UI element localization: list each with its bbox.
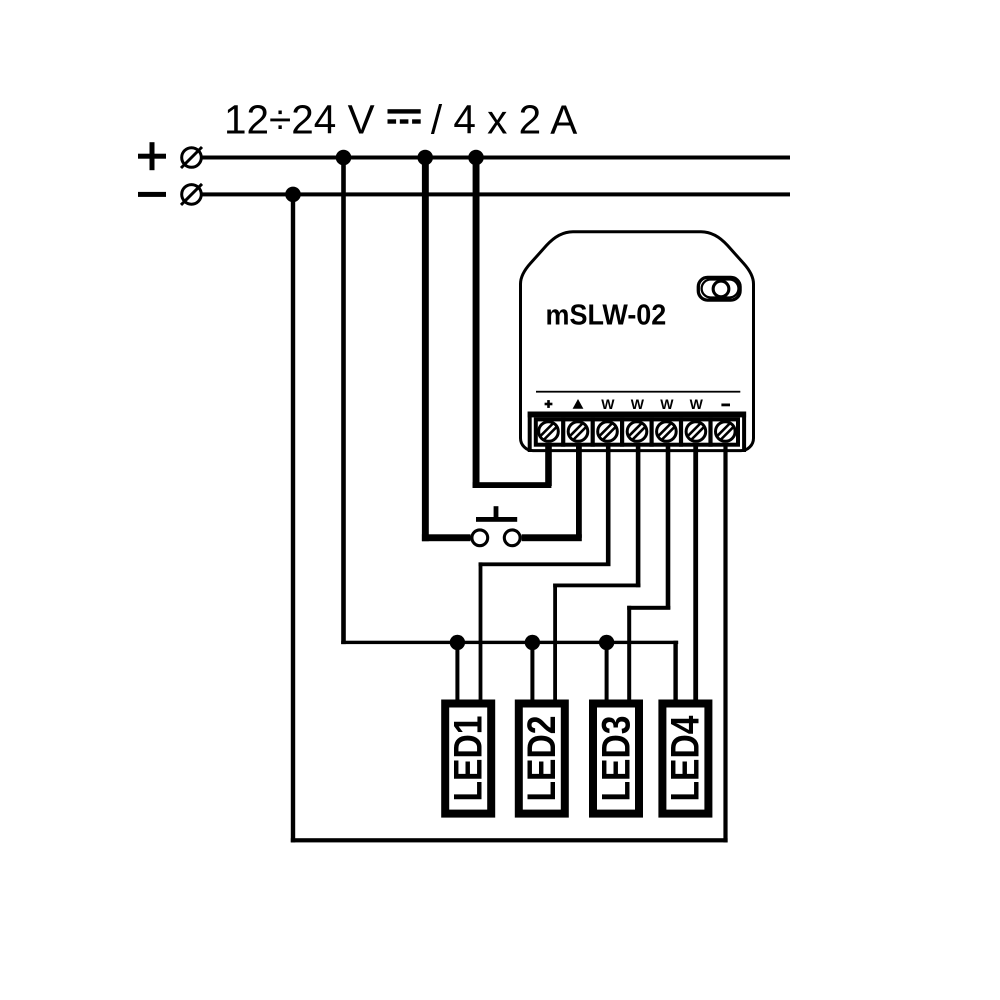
node: junction dot bus to LED1	[450, 635, 465, 650]
wire: bus down to LED2 left pin	[530, 642, 534, 700]
wire: bottom return horizontal	[291, 838, 728, 842]
terminal block left wall	[528, 412, 532, 453]
label: supply rating 12÷24 V dc / 4 x 2 A	[224, 97, 577, 143]
svg-text:W: W	[660, 396, 674, 412]
node: junction dot plus rail to LED bus	[336, 150, 352, 166]
screw terminal minus	[716, 422, 736, 442]
module mSLW-02 body outline	[521, 232, 754, 451]
screw terminal W1	[598, 422, 618, 442]
wire: W1 step horizontal	[479, 562, 611, 566]
screw terminal W2	[627, 422, 647, 442]
screw terminal W3	[657, 422, 677, 442]
svg-text:LED4: LED4	[664, 715, 708, 802]
label: terminal minus	[721, 404, 730, 407]
terminal screws with slash	[539, 422, 735, 442]
wire: up to arrow terminal	[576, 446, 582, 538]
wire: W3 step horizontal	[627, 606, 670, 610]
svg-text:mSLW-02: mSLW-02	[546, 300, 667, 332]
wire: minus rail down left side	[291, 194, 295, 842]
svg-text:W: W	[631, 396, 645, 412]
terminal screw symbol plus	[181, 147, 202, 168]
svg-text:W: W	[690, 396, 704, 412]
wire: plus supply rail	[201, 156, 790, 160]
wire: up into module plus terminal	[545, 446, 552, 486]
wire: W2 step horizontal	[553, 584, 640, 588]
node: junction dot plus rail to switch	[417, 150, 433, 166]
wire: W3 terminal down	[666, 446, 671, 609]
load LED4 box	[662, 704, 708, 814]
load LED3 box	[593, 704, 639, 814]
node: junction dot bus to LED2	[525, 635, 540, 650]
terminal block right wall	[742, 412, 746, 453]
wire: horizontal to module plus terminal	[473, 482, 552, 488]
wire: plus rail down to module plus feed	[473, 158, 480, 488]
wire: horizontal to pushbutton left contact	[422, 534, 471, 541]
load LED2 box	[519, 704, 565, 814]
screw terminal plus	[539, 422, 559, 442]
wire: minus supply rail	[201, 192, 790, 196]
wire: plus rail down to LED bus	[341, 158, 346, 645]
wire: W4 terminal down to LED4 right pin	[693, 446, 698, 700]
svg-text:W: W	[601, 396, 615, 412]
label: minus polarity symbol	[138, 192, 166, 197]
node: junction dot plus rail to module plus	[468, 150, 484, 166]
wire: bus corner down to LED4 left pin	[673, 641, 677, 701]
wire: minus terminal down right side	[723, 446, 727, 842]
svg-text:LED2: LED2	[520, 716, 564, 802]
screw terminal W4	[686, 422, 706, 442]
load LED1 box	[445, 704, 491, 814]
terminal block housing top bar	[528, 412, 746, 418]
module terminal label separator line	[536, 391, 740, 393]
label: terminal arrow (switch input)	[573, 399, 584, 409]
node: junction dot bus to LED3	[599, 635, 614, 650]
module service button icon	[698, 277, 740, 300]
wire: bus down to LED3 left pin	[605, 642, 609, 700]
wire: down to LED2 right pin	[553, 584, 557, 701]
svg-text:12÷24 V: 12÷24 V	[224, 97, 375, 143]
svg-text:/ 4 x 2 A: / 4 x 2 A	[431, 97, 577, 143]
svg-text:LED3: LED3	[594, 716, 638, 802]
pushbutton S1 momentary switch	[472, 506, 520, 545]
wire: down to LED1 right pin	[479, 562, 483, 700]
wire: LED plus bus horizontal	[341, 641, 678, 644]
wire: W2 terminal down	[636, 446, 641, 587]
wire: down to LED3 right pin	[627, 606, 631, 700]
label: terminal +	[545, 400, 553, 408]
svg-text:LED1: LED1	[447, 716, 491, 802]
screw terminal arrow	[568, 422, 588, 442]
wire: W1 terminal down	[606, 446, 611, 566]
wire: bus down to LED1 left pin	[455, 642, 459, 700]
wire: plus rail down to pushbutton	[422, 158, 429, 542]
terminal screw symbol minus	[181, 184, 202, 205]
label: plus polarity symbol	[138, 142, 166, 170]
terminal block cells	[536, 417, 738, 446]
node: junction dot minus rail	[285, 187, 301, 203]
wire: pushbutton right contact to arrow terminal	[522, 534, 582, 541]
